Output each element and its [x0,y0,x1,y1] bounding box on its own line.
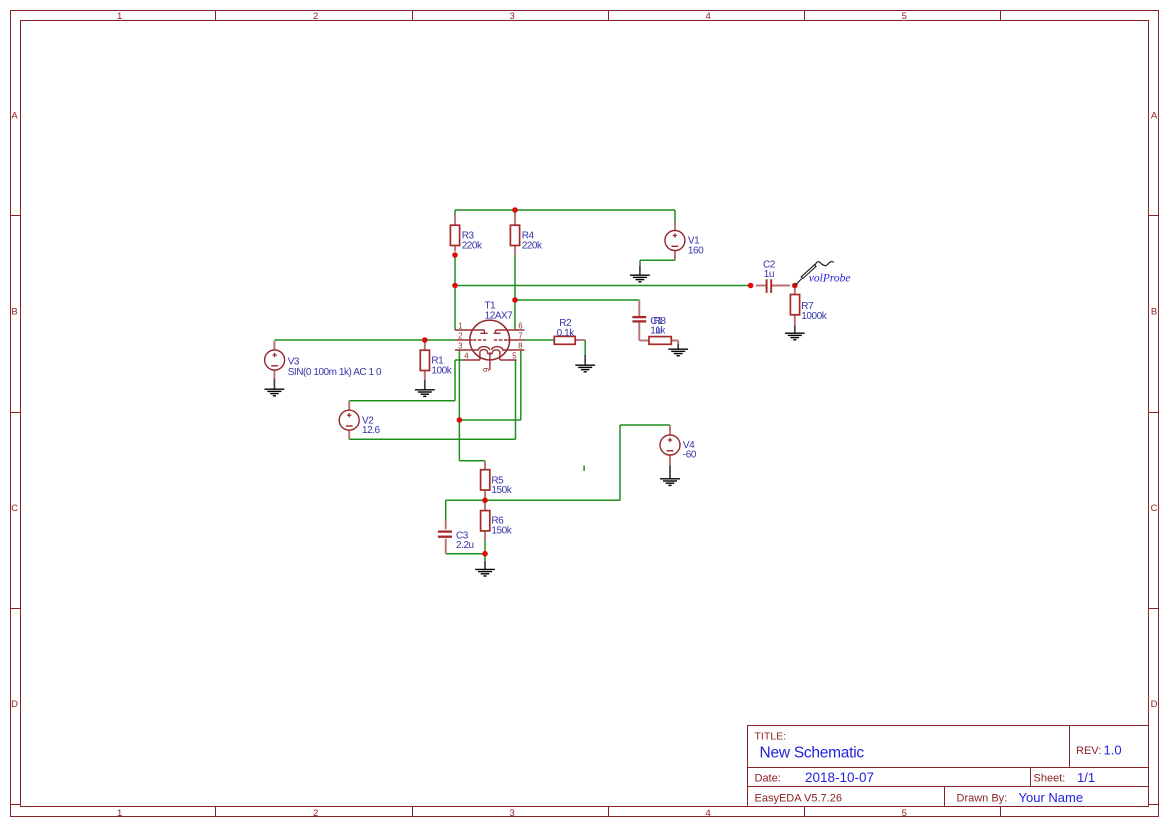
svg-text:4: 4 [706,11,711,22]
svg-text:TITLE:: TITLE: [755,731,787,743]
svg-text:D: D [11,699,18,710]
svg-text:Your Name: Your Name [1019,790,1084,805]
svg-text:C: C [1151,503,1158,514]
svg-text:220k: 220k [522,241,543,252]
svg-text:1.0: 1.0 [1104,742,1122,757]
svg-text:EasyEDA V5.7.26: EasyEDA V5.7.26 [755,793,842,805]
svg-text:2: 2 [458,332,462,341]
svg-text:D: D [1151,699,1158,710]
svg-text:New Schematic: New Schematic [760,745,865,762]
svg-text:9: 9 [482,368,491,372]
svg-text:B: B [1151,307,1157,318]
svg-text:A: A [1151,111,1158,122]
svg-text:2.2u: 2.2u [456,540,474,551]
svg-text:8: 8 [518,342,522,351]
svg-text:2018-10-07: 2018-10-07 [805,770,874,785]
svg-text:-60: -60 [683,450,697,461]
svg-text:6: 6 [518,322,522,331]
svg-text:C: C [11,503,18,514]
svg-text:2: 2 [313,808,318,819]
svg-text:3: 3 [510,808,515,819]
svg-text:5: 5 [512,351,517,360]
svg-text:1000k: 1000k [801,311,827,322]
svg-text:1: 1 [117,808,122,819]
svg-text:150k: 150k [491,526,512,537]
svg-text:12AX7: 12AX7 [485,310,514,321]
svg-text:0.1k: 0.1k [557,328,576,339]
svg-text:12.6: 12.6 [362,425,381,436]
svg-text:B: B [11,307,17,318]
svg-text:3: 3 [510,11,515,22]
svg-text:Sheet:: Sheet: [1034,773,1066,785]
svg-text:1k: 1k [655,326,666,337]
svg-text:5: 5 [902,808,907,819]
svg-text:160: 160 [688,245,704,256]
svg-text:220k: 220k [462,241,483,252]
svg-text:4: 4 [706,808,711,819]
svg-text:3: 3 [458,342,462,351]
svg-text:5: 5 [902,11,907,22]
svg-text:A: A [11,111,18,122]
svg-text:Date:: Date: [755,773,781,785]
svg-text:7: 7 [518,332,522,341]
svg-text:150k: 150k [491,485,512,496]
svg-text:SIN(0 100m 1k) AC 1 0: SIN(0 100m 1k) AC 1 0 [288,367,382,378]
svg-text:Drawn By:: Drawn By: [957,793,1008,805]
svg-text:REV:: REV: [1076,745,1101,757]
svg-text:1: 1 [458,322,462,331]
svg-text:1u: 1u [764,269,774,280]
svg-text:1/1: 1/1 [1077,770,1095,785]
svg-text:100k: 100k [431,365,452,376]
svg-text:volProbe: volProbe [809,272,851,284]
svg-text:4: 4 [464,351,469,360]
svg-text:1: 1 [117,11,122,22]
svg-text:2: 2 [313,11,318,22]
